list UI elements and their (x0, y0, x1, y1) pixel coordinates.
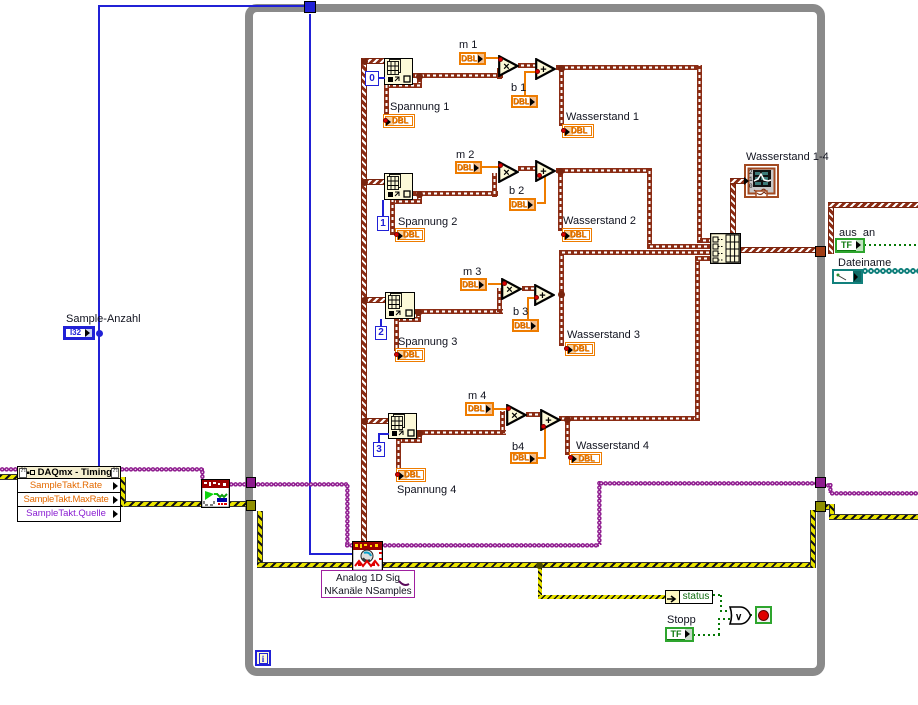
label b 3 (513, 307, 528, 318)
wire 2D array main vertical (361, 58, 367, 542)
tunnel task right (815, 477, 826, 488)
wire index1 out (412, 73, 503, 78)
unbundle status node (665, 590, 713, 604)
add U-a2 (535, 160, 556, 182)
junction main3 (361, 297, 368, 304)
constant b1 (511, 95, 538, 108)
multiply U-m2 (498, 161, 519, 183)
wire to Spannung 4 (417, 433, 422, 443)
coercion dot fn (534, 295, 539, 300)
coercion dot fn (541, 424, 546, 429)
wire const2 (380, 319, 382, 327)
label Analog 1D Sig (321, 570, 415, 598)
constant 3 (373, 442, 385, 457)
constant m3 (460, 278, 487, 291)
wire add4 out (559, 416, 700, 421)
junction row1 (416, 73, 423, 80)
coercion dot fn (506, 406, 511, 411)
wire 2D array to index4 (365, 418, 388, 424)
label m 1 (459, 40, 477, 51)
label Spannung 4 (397, 485, 456, 496)
label Wasserstand 1 (566, 112, 639, 123)
indicator Spannung 2 (395, 228, 425, 242)
coercion dot fn (502, 281, 507, 286)
label Sample-Anzahl (66, 314, 141, 325)
junction add3 (558, 291, 565, 298)
junction add1 (558, 65, 565, 72)
coercion dot (394, 352, 399, 357)
junction main1 (361, 58, 368, 65)
wire Dateiname path (862, 267, 918, 275)
wire array outside right (828, 202, 834, 254)
wire mult4 to add4 (526, 412, 540, 417)
wire mult3 to add3 (522, 286, 534, 291)
index array 4 (388, 413, 417, 439)
constant m1 (459, 52, 486, 65)
junction add4 (564, 416, 571, 423)
label Dateiname (838, 258, 891, 269)
wire m4 (494, 408, 507, 410)
label b4 (512, 442, 524, 453)
tunnel array right (815, 246, 826, 257)
svg-text:2: 2 (749, 169, 753, 176)
constant b2 (509, 198, 536, 211)
wire error inside loop (257, 511, 263, 568)
wire to Wasserstand 1 (559, 68, 564, 126)
wire to Spannung 1 (417, 78, 422, 88)
VI DAQmx Read Analog (352, 541, 383, 571)
wire error outside right (826, 504, 832, 510)
add U-a4 (540, 409, 561, 431)
wire build array out (741, 247, 816, 253)
wire add3 up to build array (559, 250, 564, 346)
svg-text:×: × (506, 284, 512, 296)
wire to chart (730, 178, 736, 234)
junction row2 (416, 191, 423, 198)
indicator Wasserstand 4 (569, 452, 602, 465)
wire const0 (379, 77, 385, 79)
wire b4 (538, 457, 546, 459)
wire to Spannung 2 (417, 194, 422, 204)
wire aus-an (864, 244, 918, 246)
multiply U-m3 (501, 278, 522, 300)
build array node (710, 233, 741, 264)
coercion dot fn (535, 69, 540, 74)
add U-a3 (534, 284, 555, 306)
indicator Wasserstand 2 (562, 228, 592, 242)
wire const3 (378, 433, 380, 442)
node junction Sample-Anzahl (96, 330, 103, 337)
wire index4 out (416, 430, 506, 435)
wire task down into start VI (200, 470, 205, 480)
coercion dot (383, 118, 388, 123)
wire Sample-Anzahl down to property node (98, 333, 100, 466)
wire stopp to or (693, 634, 720, 636)
wire task tunnel to read VI (256, 482, 348, 487)
iteration terminal i (255, 650, 271, 666)
junction row3 (415, 309, 422, 316)
indicator aus/an TF (835, 238, 865, 253)
wire Sample-Anzahl to read VI (309, 553, 353, 555)
wire index3 out (415, 309, 503, 314)
tunnel task left (246, 477, 256, 488)
wire b1 (524, 71, 526, 96)
tunnel error left (246, 500, 256, 511)
wire error in from left (0, 474, 18, 480)
wire task read VI out (383, 543, 599, 548)
constant 0 (365, 71, 379, 86)
coercion dot (564, 346, 569, 351)
indicator Spannung 1 (383, 114, 415, 128)
constant m2 (455, 161, 482, 174)
coercion dot (568, 455, 573, 460)
wire error start VI to tunnel (229, 501, 247, 507)
wire Sample-Anzahl along top (98, 5, 310, 7)
coercion dot (561, 128, 566, 133)
label m 4 (468, 391, 486, 402)
constant 2 (375, 326, 387, 340)
wire mult2 to add2 (518, 166, 536, 171)
coercion dot fn (537, 173, 542, 178)
wire Sample-Anzahl up (98, 5, 100, 333)
label Wasserstand 3 (567, 330, 640, 341)
while loop border (245, 4, 825, 676)
add U-a1 (535, 58, 556, 80)
label m 2 (456, 150, 474, 161)
multiply U-m1 (498, 55, 519, 77)
svg-text:×: × (503, 167, 509, 179)
wire task start VI to tunnel (229, 482, 247, 487)
junction row4 (416, 430, 423, 437)
label Spannung 1 (390, 102, 449, 113)
label Stopp (667, 615, 696, 626)
wire m1 (485, 57, 501, 59)
wire or to stop terminal (750, 614, 756, 616)
index array 2 (384, 173, 413, 200)
control Sample-Anzahl I32 (63, 326, 95, 340)
label b 2 (509, 186, 524, 197)
constant 1 (377, 216, 389, 231)
label tail (398, 580, 410, 588)
wire Sample-Anzahl inside loop down (309, 14, 311, 555)
coercion dot (561, 232, 566, 237)
label Spannung 2 (398, 217, 457, 228)
wire add2 out (556, 168, 652, 173)
wire to Wasserstand 2 (558, 171, 563, 231)
wire task in from left (0, 467, 18, 472)
control Stopp TF (665, 627, 694, 642)
index array 3 (385, 292, 415, 319)
multiply U-m4 (506, 404, 527, 426)
or gate (729, 606, 752, 625)
wire m3 (488, 283, 505, 285)
wire 2D array to index1 (365, 58, 384, 64)
wire error branch to status (538, 568, 542, 598)
junction main2 (361, 179, 368, 186)
indicator Wasserstand 3 (565, 342, 595, 356)
wire b3 (527, 297, 529, 320)
svg-text:+: + (545, 415, 551, 427)
wire b2 (537, 202, 546, 204)
wire task prop node to start VI (120, 467, 204, 472)
coercion dot fn (498, 163, 503, 168)
label aus an (839, 228, 875, 239)
label m 3 (463, 267, 481, 278)
tunnel blue top (304, 1, 316, 13)
indicator Wasserstand 1 (562, 124, 594, 138)
property node U1 DAQmx - Timing (17, 466, 121, 522)
index array 1 (384, 58, 413, 85)
wire error prop node down (120, 477, 126, 507)
constant b3 (512, 319, 539, 332)
svg-text:0: 0 (749, 183, 753, 190)
VI DAQmx Start Task (201, 479, 230, 508)
wire 2D array to index2 (365, 179, 384, 185)
svg-text:1: 1 (749, 176, 753, 183)
chart Wasserstand 1-4 (746, 152, 829, 163)
wire status to or (713, 594, 722, 596)
wire task outside right (826, 483, 832, 488)
constant b4 (510, 452, 538, 464)
wire to Spannung 3 (416, 312, 421, 322)
constant m4 (465, 402, 494, 416)
indicator Spannung 4 (396, 468, 426, 482)
junction add2 (557, 168, 564, 175)
coercion dot fn (498, 57, 503, 62)
wire index2 out (413, 191, 498, 196)
loop condition terminal (755, 606, 772, 624)
control Dateiname path (832, 269, 863, 284)
label b 1 (511, 83, 526, 94)
indicator Spannung 3 (395, 348, 425, 362)
svg-text:+: + (540, 64, 546, 76)
svg-text:×: × (511, 410, 517, 422)
wire 2D array to index3 (365, 297, 385, 303)
svg-text:∨: ∨ (735, 612, 742, 623)
chart input arrow (744, 177, 749, 185)
svg-text:×: × (503, 61, 509, 73)
wire const1 (382, 200, 384, 216)
wire add1 out (556, 65, 702, 70)
label Wasserstand 2 (563, 216, 636, 227)
wire mult1 to add1 (518, 63, 536, 68)
label Wasserstand 4 (576, 441, 649, 452)
tunnel error right (815, 501, 826, 512)
junction main4 (361, 418, 368, 425)
junction error (536, 562, 543, 569)
wire m2 (482, 166, 501, 168)
label Spannung 3 (398, 337, 457, 348)
coercion dot (394, 232, 399, 237)
svg-text:+: + (539, 290, 545, 302)
wire to Wasserstand 4 (565, 419, 570, 455)
coercion dot (395, 472, 400, 477)
